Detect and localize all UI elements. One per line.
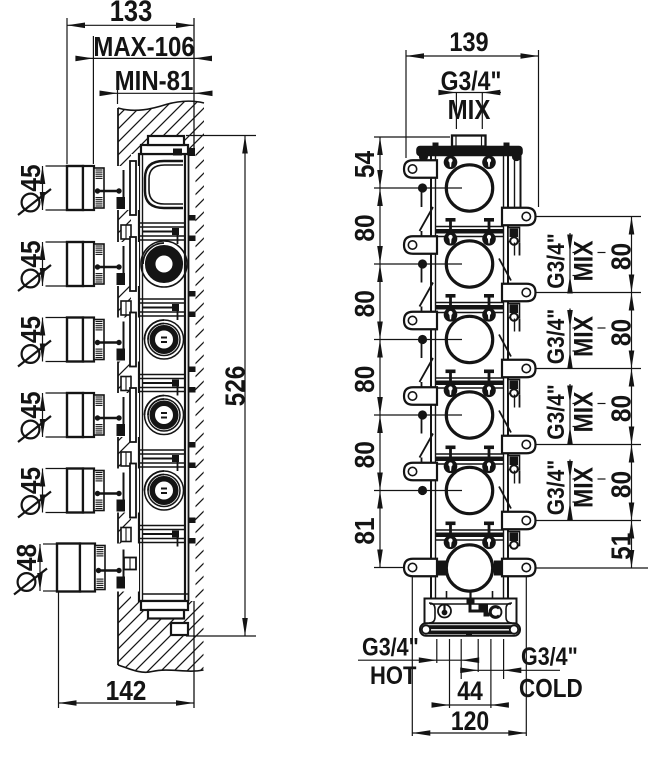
front crossbar 1 [436, 218, 504, 237]
body crossbar below port 4 [121, 442, 196, 471]
right rail jog 4 [499, 471, 520, 509]
svg-text:80: 80 [348, 290, 380, 317]
left mounting lug 4 [404, 387, 437, 405]
svg-text:54: 54 [348, 151, 380, 179]
svg-text:HOT: HOT [370, 663, 417, 691]
front view main rails [427, 155, 521, 599]
front port circle 3 [446, 316, 492, 362]
svg-text:120: 120 [451, 708, 489, 737]
right chain segment 51 at 520.5 [605, 521, 637, 569]
svg-text:142: 142 [106, 674, 147, 706]
front crossbar 3 [436, 370, 504, 389]
front port circle 5 [446, 467, 492, 513]
screw bosses below bar 5 [444, 536, 496, 550]
dimension 526 [186, 136, 256, 637]
svg-text:G3/4": G3/4" [521, 643, 578, 671]
right rail jog 2 [499, 319, 520, 357]
svg-text:45: 45 [14, 467, 46, 494]
right chain segment 80 at 292.5 [605, 293, 637, 369]
right mounting lug 1 [502, 208, 536, 226]
bottom manifold box [425, 591, 517, 627]
left chain segment 54 at 137 [348, 137, 382, 188]
left mounting lug 5 [404, 463, 437, 481]
right rail jog 3 [499, 395, 520, 433]
svg-text:G3/4": G3/4" [543, 460, 570, 515]
left chain segment 81 at 490.5 [348, 491, 382, 568]
left rail jog 1 [420, 190, 434, 236]
front view top inlet stub [452, 136, 486, 147]
dimension MIN-81 [100, 67, 213, 104]
port4 cartridge rings [145, 396, 184, 435]
front crossbar 4 [436, 446, 504, 465]
svg-text:48: 48 [10, 544, 42, 571]
front port circle 4 [446, 392, 492, 438]
svg-text:81: 81 [348, 517, 380, 544]
dim diameter-45 port 3 [14, 316, 67, 367]
right chain line [631, 217, 633, 569]
screw bosses below bar 4 [444, 460, 496, 474]
right mounting lug 3 [502, 360, 536, 378]
svg-text:45: 45 [14, 391, 46, 418]
svg-text:80: 80 [605, 243, 637, 270]
screw bosses below bar 2 [444, 308, 496, 322]
left chain ref line 6 [374, 567, 404, 569]
right chain ref line 1 [536, 292, 641, 294]
svg-text:MIX: MIX [570, 391, 599, 432]
screw bosses below bar 1 [444, 232, 496, 246]
dimension 120 [412, 708, 526, 737]
left chain ref line 4 [374, 414, 462, 416]
port 2 stub (diam 45) [67, 237, 139, 291]
dim diameter-45 port 4 [14, 391, 67, 442]
svg-text:133: 133 [110, 0, 153, 27]
port 3 stub (diam 45) [67, 313, 139, 367]
svg-text:G3/4": G3/4" [543, 384, 570, 439]
left chain segment 80 at 188 [348, 188, 382, 264]
svg-text:MIX: MIX [448, 96, 491, 126]
left chain ref line 3 [374, 339, 462, 341]
dim diameter-45 port 2 [14, 240, 67, 291]
label G3/4 MIX side 2 [543, 309, 606, 370]
svg-text:45: 45 [14, 316, 46, 343]
left chain line [379, 137, 381, 568]
left rail jog 4 [420, 417, 434, 463]
right side stub 4 [508, 456, 520, 473]
screw bosses below bar 0 [444, 156, 496, 170]
label G3/4 COLD [460, 643, 583, 704]
svg-text:MIX: MIX [570, 467, 599, 508]
body crossbar below port 1 [121, 215, 196, 244]
screw bosses below bar 3 [444, 384, 496, 398]
svg-text:80: 80 [348, 366, 380, 393]
dimension 139 [406, 28, 539, 59]
top plaster-guard plates [141, 136, 188, 154]
right chain ref line 4 [536, 520, 641, 522]
svg-text:45: 45 [14, 164, 46, 191]
left rail screw dot 3 [418, 335, 427, 344]
front crossbar 5 [436, 522, 504, 541]
body crossbar below port 2 [121, 291, 196, 320]
left mounting lug 3 [404, 312, 437, 330]
svg-text:139: 139 [449, 28, 488, 58]
svg-text:80: 80 [348, 441, 380, 468]
port3 cartridge rings [145, 320, 184, 359]
svg-text:COLD: COLD [519, 675, 583, 704]
svg-text:526: 526 [219, 366, 251, 407]
label G3/4 MIX top [438, 68, 501, 129]
right chain ref line 5 [536, 567, 648, 569]
manifold service port left [438, 605, 451, 618]
valve body side view main box [131, 154, 196, 601]
svg-text:80: 80 [348, 214, 380, 241]
port 5 stub (diam 45) [67, 464, 139, 518]
right chain segment 80 at 368.5 [605, 369, 637, 445]
bottom left lug [404, 559, 446, 577]
body crossbar below port 3 [121, 367, 196, 396]
wall section hatch (left view) [118, 99, 204, 675]
right mounting lug 4 [502, 436, 536, 454]
port 1 stub (diam 45) [67, 161, 139, 215]
front crossbar 2 [436, 294, 504, 313]
right mounting lug 2 [502, 284, 536, 302]
left rail screw dot 5 [418, 486, 427, 495]
svg-text:80: 80 [605, 471, 637, 498]
port6 chamber detail [124, 558, 189, 595]
body crossbar below port 5 [121, 518, 196, 547]
bottom right lug [494, 559, 536, 577]
right chain segment 80 at 216.5 [605, 217, 637, 293]
label G3/4 MIX side 4 [543, 460, 606, 521]
left mounting lug 1 [404, 160, 437, 178]
dim diameter-45 port 1 [14, 164, 67, 215]
label G3/4 MIX side 1 [543, 233, 606, 294]
front view top bar [417, 143, 522, 162]
svg-text:51: 51 [605, 533, 637, 560]
front port circle 1 [446, 165, 492, 211]
dim 139 extension lines [406, 50, 539, 207]
right chain ref line 2 [536, 368, 641, 370]
dim 133 extension lines [67, 18, 93, 164]
front port circle 6 [446, 545, 492, 591]
left rail jog 2 [420, 266, 434, 312]
port 4 stub (diam 45) [67, 388, 139, 442]
svg-text:G3/4": G3/4" [362, 633, 419, 661]
svg-text:G3/4": G3/4" [543, 309, 570, 364]
svg-text:MAX-106: MAX-106 [93, 33, 194, 63]
svg-text:45: 45 [14, 240, 46, 267]
dimension 133 [67, 0, 194, 28]
left mounting lug 2 [404, 236, 437, 254]
right chain segment 80 at 444.5 [605, 445, 637, 521]
label G3/4 HOT [358, 633, 479, 690]
left rail screw dot 2 [418, 259, 427, 268]
dimension 44 [432, 678, 509, 708]
right side stub 5 [508, 532, 520, 549]
dim diameter-48 port 6 [10, 544, 57, 595]
bottom rail [420, 623, 520, 636]
right rail jog 1 [499, 243, 520, 281]
svg-text:MIX: MIX [570, 316, 599, 357]
right chain ref line 0 [536, 216, 641, 218]
left chain segment 80 at 264 [348, 264, 382, 340]
left chain ref line 1 [374, 187, 462, 189]
svg-text:G3/4": G3/4" [543, 233, 570, 288]
front port circle 2 [446, 241, 492, 287]
svg-text:MIX: MIX [570, 240, 599, 281]
port5 cartridge rings [145, 471, 184, 510]
dimension 142 [59, 592, 195, 708]
right chain ref line 3 [536, 444, 641, 446]
left chain ref line 5 [374, 490, 462, 492]
left rail screw dot 1 [418, 183, 427, 192]
port1 cartridge arch [145, 148, 195, 208]
svg-text:MIN-81: MIN-81 [115, 67, 194, 97]
port2 cartridge ring [141, 241, 187, 287]
bottom plates and foot [141, 601, 188, 635]
left chain ref line 0 [374, 136, 450, 138]
port 6 stub (diam 48) [57, 544, 139, 592]
left chain ref line 2 [374, 263, 462, 265]
left rail screw dot 4 [418, 410, 427, 419]
svg-text:80: 80 [605, 395, 637, 422]
bottom extension lines [412, 577, 526, 736]
right side stub 3 [508, 380, 520, 397]
right side stub 2 [508, 304, 520, 321]
manifold service port right [490, 606, 502, 618]
svg-text:44: 44 [457, 678, 483, 707]
dimension MAX-106 [75, 33, 212, 63]
label G3/4 MIX side 3 [543, 384, 606, 445]
left chain segment 80 at 339.5 [348, 340, 382, 416]
svg-text:80: 80 [605, 319, 637, 346]
manifold center valve glyph [467, 590, 490, 617]
left chain segment 80 at 415 [348, 415, 382, 491]
right mounting lug 5 [502, 512, 536, 530]
left rail jog 3 [420, 341, 434, 387]
right side stub 1 [508, 228, 520, 245]
wall reference plane line [193, 18, 195, 708]
dim diameter-45 port 5 [14, 467, 67, 518]
